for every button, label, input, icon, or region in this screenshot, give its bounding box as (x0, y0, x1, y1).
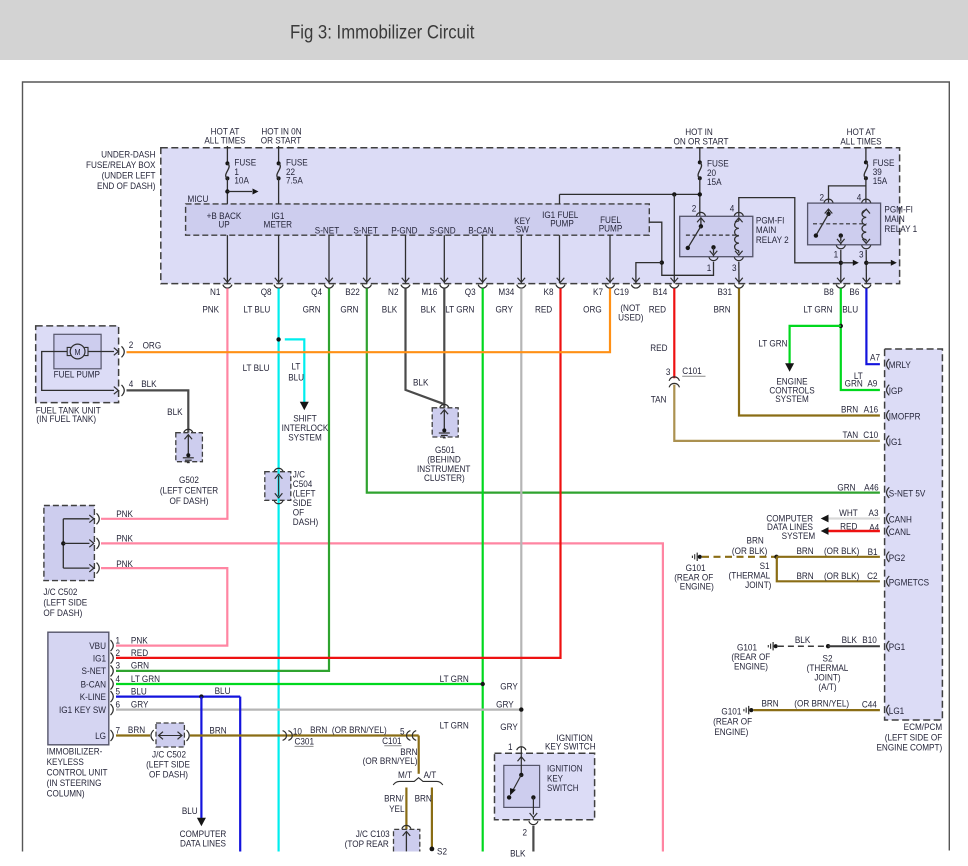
svg-text:ORG: ORG (143, 340, 162, 351)
svg-text:IG1 KEY SW: IG1 KEY SW (59, 704, 107, 715)
wire BRN (OR BLK) dashed to S1 (702, 556, 777, 558)
svg-text:GRN: GRN (340, 304, 358, 315)
wire BLK N2 to G501 (406, 288, 445, 404)
svg-text:OF DASH): OF DASH) (43, 607, 82, 618)
ECM pin LG1 (887, 705, 890, 716)
svg-text:BRN: BRN (415, 793, 432, 804)
svg-text:2: 2 (115, 647, 120, 658)
svg-text:CANL: CANL (889, 526, 911, 537)
svg-text:BLK: BLK (382, 304, 398, 315)
junction connector J/C C502 (left side of dash) (44, 506, 95, 581)
svg-text:BLK: BLK (795, 634, 811, 645)
svg-text:A46: A46 (864, 482, 879, 493)
wire TAN to ECM IG1 (674, 385, 880, 441)
wire LT GRN B8 to ECM IGP (841, 288, 880, 390)
svg-text:S-NET 5V: S-NET 5V (889, 488, 926, 499)
svg-text:SYSTEM: SYSTEM (288, 432, 322, 443)
svg-text:3: 3 (666, 366, 671, 377)
svg-text:UNDER-DASH: UNDER-DASH (101, 149, 155, 160)
terminal C19 (632, 278, 640, 283)
wire LT BLU Q8 main (278, 288, 280, 851)
svg-text:OR START: OR START (261, 135, 302, 146)
svg-text:B22: B22 (345, 287, 360, 298)
svg-text:BLU: BLU (131, 686, 147, 697)
junction connector J/C C502 (second) (151, 730, 154, 741)
wire BLU B6 to ECM MRLY (866, 288, 880, 364)
MICU box (186, 204, 650, 235)
svg-text:PNK: PNK (116, 558, 133, 569)
wire WHT CANH (828, 517, 880, 519)
terminal N2 (402, 278, 410, 283)
svg-text:S-NET: S-NET (82, 666, 107, 677)
svg-text:BRN/: BRN/ (384, 793, 404, 804)
relay1 pin 3 (865, 240, 867, 242)
svg-text:4: 4 (129, 378, 134, 389)
svg-text:PUMP: PUMP (550, 218, 574, 229)
svg-text:B14: B14 (653, 287, 668, 298)
svg-text:ECM/PCM: ECM/PCM (904, 721, 943, 732)
svg-text:(REAR OF: (REAR OF (713, 716, 753, 727)
svg-text:3: 3 (732, 262, 737, 273)
fuel pump pin 4 (42, 352, 114, 391)
svg-text:SYSTEM: SYSTEM (775, 393, 809, 404)
svg-text:PG2: PG2 (889, 552, 905, 563)
terminal M16 (441, 278, 449, 283)
svg-text:N1: N1 (210, 287, 220, 298)
svg-text:GRN: GRN (131, 660, 149, 671)
svg-text:LT: LT (291, 361, 300, 372)
svg-text:B-CAN: B-CAN (81, 679, 106, 690)
ECM pin S-NET 5V (887, 487, 890, 498)
svg-text:MRLY: MRLY (889, 360, 911, 371)
svg-text:C10: C10 (863, 430, 878, 441)
relay2 mechanical link (686, 234, 739, 236)
fuel pump motor M (70, 344, 85, 359)
svg-text:BRN: BRN (713, 304, 730, 315)
relay1 mechanical link (813, 223, 867, 225)
svg-text:LG1: LG1 (889, 706, 904, 717)
svg-text:LT GRN: LT GRN (758, 338, 787, 349)
wire BLK fuel pump pin4 to G502 (127, 390, 189, 432)
wire BRN S1 to ECM PG2 (777, 556, 880, 558)
svg-text:15A: 15A (873, 176, 888, 187)
svg-text:YEL: YEL (389, 804, 404, 815)
wire LT GRN immobilizer pin 4 (B-CAN) (116, 683, 483, 685)
svg-text:5: 5 (115, 686, 120, 697)
wire fuse1 to MICU +B BACK UP (226, 178, 228, 204)
wire GRN B22 to ECM S-NET 5V (367, 288, 880, 492)
terminal Q3 (479, 278, 487, 283)
svg-text:FUEL PUMP: FUEL PUMP (54, 369, 100, 380)
svg-text:ALL TIMES: ALL TIMES (840, 136, 881, 147)
svg-text:JOINT): JOINT) (745, 579, 771, 590)
svg-text:COLUMN): COLUMN) (47, 788, 85, 799)
svg-text:PNK: PNK (116, 508, 133, 519)
wire PNK J/C C502 pin 3 to immobilizer pin 1 (101, 568, 227, 646)
svg-text:(OR BLK): (OR BLK) (824, 571, 859, 582)
svg-text:B-CAN: B-CAN (468, 225, 493, 236)
wire BRN immobilizer pin7 to J/C C502 (116, 734, 150, 736)
svg-text:BLU: BLU (842, 304, 858, 315)
svg-text:ORG: ORG (583, 304, 602, 315)
svg-text:TAN: TAN (842, 430, 858, 441)
ground G101 (PG1 row) (772, 642, 774, 650)
svg-text:BRN: BRN (841, 404, 858, 415)
svg-text:3: 3 (859, 249, 864, 260)
svg-text:BLK: BLK (421, 304, 437, 315)
svg-text:7.5A: 7.5A (286, 175, 303, 186)
svg-text:2: 2 (692, 203, 697, 214)
ECM pin CANL (887, 526, 890, 537)
svg-text:1: 1 (508, 741, 513, 752)
svg-text:10A: 10A (234, 175, 249, 186)
wire PNK N1 to J/C C502 pin 1 (101, 288, 227, 518)
relay1 pin 1 (837, 239, 845, 244)
in-line connector C301 (283, 731, 287, 741)
wire BRN to connector C301 (190, 734, 419, 736)
fuse 1 10A (226, 146, 228, 163)
svg-text:IG1: IG1 (93, 653, 106, 664)
svg-text:(LEFT SIDE: (LEFT SIDE (43, 597, 87, 608)
svg-text:(OR BLK): (OR BLK) (824, 546, 859, 557)
svg-text:ENGINE): ENGINE) (714, 727, 748, 738)
svg-text:ENGINE): ENGINE) (734, 661, 768, 672)
svg-text:4: 4 (857, 192, 862, 203)
svg-text:GRN: GRN (303, 304, 321, 315)
svg-text:RED: RED (649, 304, 666, 315)
ECM pin IG1 (887, 436, 890, 447)
svg-text:4: 4 (730, 203, 735, 214)
svg-text:S-NET: S-NET (315, 225, 340, 236)
svg-text:MICU: MICU (187, 193, 208, 204)
terminal B14 (671, 278, 679, 283)
svg-text:IG1: IG1 (889, 436, 902, 447)
svg-text:BRN: BRN (209, 725, 226, 736)
terminal Q4 (325, 278, 333, 283)
svg-text:LT GRN: LT GRN (131, 673, 160, 684)
svg-text:IGP: IGP (889, 385, 903, 396)
terminal Q8 (275, 278, 283, 283)
arrow feed from node B8 (841, 262, 853, 264)
immobilizer-keyless control unit (48, 632, 109, 745)
svg-text:15A: 15A (707, 176, 722, 187)
wire BRN B31 to ECM IMOFPR (739, 288, 880, 415)
svg-text:DASH): DASH) (293, 516, 318, 527)
svg-text:A16: A16 (864, 404, 879, 415)
svg-text:ALL TIMES: ALL TIMES (204, 135, 245, 146)
svg-text:IMMOBILIZER-: IMMOBILIZER- (47, 746, 103, 757)
svg-text:GRY: GRY (500, 721, 518, 732)
wire relay2 pin3 to terminal B31 (738, 262, 740, 284)
svg-text:LT BLU: LT BLU (243, 362, 270, 373)
svg-text:GRN: GRN (837, 482, 855, 493)
svg-text:RELAY 2: RELAY 2 (756, 234, 789, 245)
svg-text:G101: G101 (721, 706, 741, 717)
wire BRN S1 to ECM PGMETCS (777, 557, 880, 582)
ground G101 (LG1 row) (748, 706, 750, 714)
svg-text:M/T: M/T (398, 769, 413, 780)
svg-text:METER: METER (264, 219, 293, 230)
svg-text:BLK: BLK (413, 377, 429, 388)
arrow to shift interlock system (300, 402, 309, 411)
svg-text:B1: B1 (868, 546, 878, 557)
svg-text:J/C C502: J/C C502 (43, 586, 77, 597)
terminal B31 (735, 278, 743, 283)
wire PNK J/C C502 pin 2 (101, 543, 663, 851)
svg-text:TAN: TAN (651, 394, 667, 405)
svg-text:M16: M16 (421, 287, 437, 298)
svg-text:M34: M34 (498, 287, 514, 298)
svg-text:(A/T): (A/T) (818, 681, 836, 692)
svg-text:A7: A7 (870, 352, 880, 363)
relay2 switch (700, 218, 702, 227)
svg-text:(OR BRN/YEL): (OR BRN/YEL) (363, 756, 418, 767)
svg-text:3: 3 (115, 660, 120, 671)
svg-text:2: 2 (522, 827, 527, 838)
svg-text:P-GND: P-GND (391, 225, 417, 236)
svg-text:RED: RED (650, 342, 667, 353)
wire BLU K-LINE immobilizer pin 5 (116, 695, 240, 697)
svg-text:S-GND: S-GND (429, 225, 455, 236)
svg-text:ON OR START: ON OR START (674, 136, 730, 147)
svg-text:OF DASH): OF DASH) (149, 769, 188, 780)
svg-text:BLK: BLK (167, 406, 183, 417)
svg-text:BLK: BLK (510, 848, 526, 859)
wire fuse20 bus to K8 / B14 / relay2 (699, 178, 701, 216)
wire BLK M16 to G501 (443, 288, 445, 407)
wire LT GRN branch to engine controls system (790, 326, 841, 364)
svg-text:LT GRN: LT GRN (440, 720, 469, 731)
wire BLK dashed to S2 (778, 645, 828, 647)
ECM pin IMOFPR (887, 410, 890, 421)
svg-text:C2: C2 (867, 571, 877, 582)
svg-text:(IN STEERING: (IN STEERING (47, 777, 102, 788)
wire BLK ignition pin2 down (532, 826, 534, 852)
svg-text:SYSTEM: SYSTEM (782, 530, 816, 541)
svg-text:PG1: PG1 (889, 642, 905, 653)
wire RED CANL (828, 530, 880, 532)
ground G101 (S1 row) (696, 553, 698, 561)
wire BRN branch (A/T) to S2 (431, 788, 433, 848)
wire BRN C101 down to M/T-A/T split (418, 736, 420, 774)
svg-text:S2: S2 (437, 846, 447, 857)
wire GRY M34 to ignition key switch (520, 288, 522, 747)
svg-text:BLU: BLU (288, 372, 304, 383)
svg-text:2: 2 (129, 339, 134, 350)
svg-text:CLUSTER): CLUSTER) (424, 472, 465, 483)
arrow feed from node B6 (866, 262, 891, 264)
wire LT GRN Q3 / B-CAN net (482, 288, 484, 851)
svg-text:END OF DASH): END OF DASH) (97, 180, 155, 191)
svg-text:(OR BRN/YEL): (OR BRN/YEL) (332, 724, 387, 735)
terminal N1 (224, 278, 232, 283)
fuse 39 15A (865, 148, 867, 163)
svg-text:6: 6 (115, 699, 120, 710)
svg-text:(LEFT CENTER: (LEFT CENTER (160, 485, 218, 496)
svg-text:10: 10 (293, 726, 302, 737)
svg-text:ENGINE): ENGINE) (680, 581, 714, 592)
ignition switch contacts (518, 757, 526, 762)
ground G502 (184, 429, 193, 432)
svg-text:M: M (75, 347, 81, 357)
svg-text:Q8: Q8 (261, 287, 272, 298)
svg-text:KEYLESS: KEYLESS (47, 756, 84, 767)
wire BRN to ECM LG1 (754, 709, 880, 711)
svg-text:2: 2 (819, 192, 824, 203)
svg-text:(OR BRN/YEL): (OR BRN/YEL) (794, 698, 849, 709)
svg-text:B8: B8 (824, 287, 834, 298)
wire GRY to immobilizer pin 6 (116, 708, 521, 710)
wire BLU branch to computer data lines (200, 697, 202, 819)
ECM pin CANH (887, 513, 890, 524)
svg-text:PNK: PNK (131, 635, 148, 646)
svg-text:ENGINE COMPT): ENGINE COMPT) (876, 742, 942, 753)
fuel pump inner box (54, 334, 101, 369)
wire BLU long branch down (239, 697, 241, 852)
ECM/PCM box (885, 349, 943, 720)
svg-text:Fig 3: Immobilizer Circuit: Fig 3: Immobilizer Circuit (290, 21, 474, 42)
svg-text:PNK: PNK (116, 533, 133, 544)
junction connector J/C C103 (402, 825, 411, 828)
svg-text:BRN: BRN (761, 698, 778, 709)
svg-text:C101: C101 (382, 735, 402, 746)
svg-text:BLU: BLU (215, 685, 231, 696)
wire RED B14 to connector C101 (673, 288, 675, 378)
ECM pin IGP (887, 385, 890, 396)
svg-text:(OR BLK): (OR BLK) (732, 545, 767, 556)
fuel pump pin 2 (88, 351, 114, 353)
svg-text:(LEFT SIDE OF: (LEFT SIDE OF (885, 732, 943, 743)
svg-text:GRY: GRY (500, 681, 518, 692)
svg-text:K7: K7 (593, 287, 603, 298)
svg-text:IMOFPR: IMOFPR (889, 411, 921, 422)
svg-text:UP: UP (218, 219, 229, 230)
wire RED K8 to immobilizer pin 2 (116, 288, 561, 658)
ground G501 (440, 404, 449, 407)
wire LT BLU branch to shift interlock (285, 339, 305, 402)
ECM pin PG1 (887, 641, 890, 652)
svg-text:B31: B31 (717, 287, 732, 298)
svg-text:1: 1 (834, 249, 839, 260)
terminal B6 (863, 278, 871, 283)
MICU pin drop wires (226, 235, 228, 283)
wire relay1 pin3 to terminal B6 (865, 250, 867, 284)
svg-text:GRY: GRY (131, 699, 149, 710)
junction connector J/C C504 (274, 468, 283, 471)
svg-text:1: 1 (707, 262, 712, 273)
svg-text:WHT: WHT (839, 508, 858, 519)
wire BRN/YEL branch (M/T) to J/C C103 (405, 788, 407, 830)
svg-text:BLK: BLK (842, 634, 858, 645)
svg-text:C19: C19 (614, 287, 629, 298)
svg-text:7: 7 (115, 725, 120, 736)
svg-text:B6: B6 (849, 287, 859, 298)
svg-text:BRN: BRN (128, 725, 145, 736)
relay PGM-FI MAIN RELAY 2 (680, 216, 753, 256)
svg-text:RELAY 1: RELAY 1 (884, 223, 917, 234)
svg-text:K8: K8 (544, 287, 554, 298)
svg-text:BRN: BRN (796, 546, 813, 557)
svg-text:DATA LINES: DATA LINES (180, 838, 226, 849)
svg-text:KEY SWITCH: KEY SWITCH (545, 741, 596, 752)
ECM pin MRLY (887, 359, 890, 370)
svg-text:USED): USED) (618, 312, 643, 323)
svg-text:SWITCH: SWITCH (547, 783, 578, 794)
wire relay2 pin4 to node B8 (739, 198, 839, 263)
svg-text:(UNDER LEFT: (UNDER LEFT (102, 170, 156, 181)
svg-text:G502: G502 (179, 474, 199, 485)
svg-text:S-NET: S-NET (353, 225, 378, 236)
wire ORG K7 to fuel pump pin 2 (127, 288, 611, 352)
svg-text:GRY: GRY (496, 699, 514, 710)
svg-text:4: 4 (115, 673, 120, 684)
svg-text:GRN: GRN (845, 378, 863, 389)
svg-text:LT BLU: LT BLU (243, 304, 270, 315)
svg-text:LG: LG (95, 730, 106, 741)
svg-text:K-LINE: K-LINE (80, 691, 106, 702)
in-line connector C101 (B14) (669, 377, 679, 381)
wire fuse22 to MICU IG1 METER (278, 178, 280, 204)
svg-text:C301: C301 (294, 736, 314, 747)
svg-text:VBU: VBU (89, 640, 106, 651)
svg-text:RED: RED (535, 304, 552, 315)
terminal K8 (557, 278, 565, 283)
under-dash fuse/relay box (161, 148, 900, 284)
svg-text:(IN FUEL TANK): (IN FUEL TANK) (36, 413, 96, 424)
relay PGM-FI MAIN RELAY 1 (808, 203, 881, 245)
header band (0, 0, 968, 60)
ECM pin PGMETCS (887, 576, 890, 587)
ECM pin PG2 (887, 552, 890, 563)
svg-text:LT GRN: LT GRN (445, 304, 474, 315)
wire fuse39 to relay1 pins 2 and 4 (865, 178, 867, 203)
svg-text:BRN: BRN (310, 724, 327, 735)
wire relay1 pin1 to terminal B8 (840, 250, 842, 284)
ignition switch pin 2 (530, 813, 538, 818)
svg-text:BLK: BLK (141, 379, 157, 390)
svg-text:GRY: GRY (495, 304, 513, 315)
relay1 switch (828, 209, 830, 214)
svg-text:CONTROL UNIT: CONTROL UNIT (47, 767, 108, 778)
terminal M34 (518, 278, 526, 283)
svg-text:A/T: A/T (424, 769, 437, 780)
svg-text:LT GRN: LT GRN (803, 304, 832, 315)
svg-text:C101: C101 (682, 366, 702, 377)
terminal K7 (606, 278, 614, 283)
relay2 pin 1 (710, 251, 718, 256)
wire BLK S2 to ECM PG1 (828, 645, 880, 647)
svg-text:B10: B10 (862, 634, 877, 645)
svg-text:CANH: CANH (889, 514, 912, 525)
svg-text:N2: N2 (388, 287, 398, 298)
svg-text:Q3: Q3 (465, 287, 476, 298)
svg-text:OF DASH): OF DASH) (170, 495, 209, 506)
svg-text:A3: A3 (869, 508, 879, 519)
svg-text:C44: C44 (862, 699, 877, 710)
svg-text:FUSE/RELAY BOX: FUSE/RELAY BOX (86, 159, 156, 170)
svg-text:PNK: PNK (202, 304, 219, 315)
svg-text:PGMETCS: PGMETCS (889, 577, 929, 588)
svg-text:BLU: BLU (182, 806, 198, 817)
svg-text:PUMP: PUMP (599, 223, 623, 234)
relay2 pin 3 (738, 251, 740, 254)
arrow feed right of fuse 1 (227, 191, 252, 193)
wire relay2 pin1 / MICU / C19 net (649, 222, 713, 275)
svg-text:1: 1 (115, 635, 120, 646)
svg-text:SW: SW (516, 224, 530, 235)
fuse 20 15A (699, 148, 701, 163)
wire GRN Q4 to immobilizer pin 3 (116, 288, 329, 671)
